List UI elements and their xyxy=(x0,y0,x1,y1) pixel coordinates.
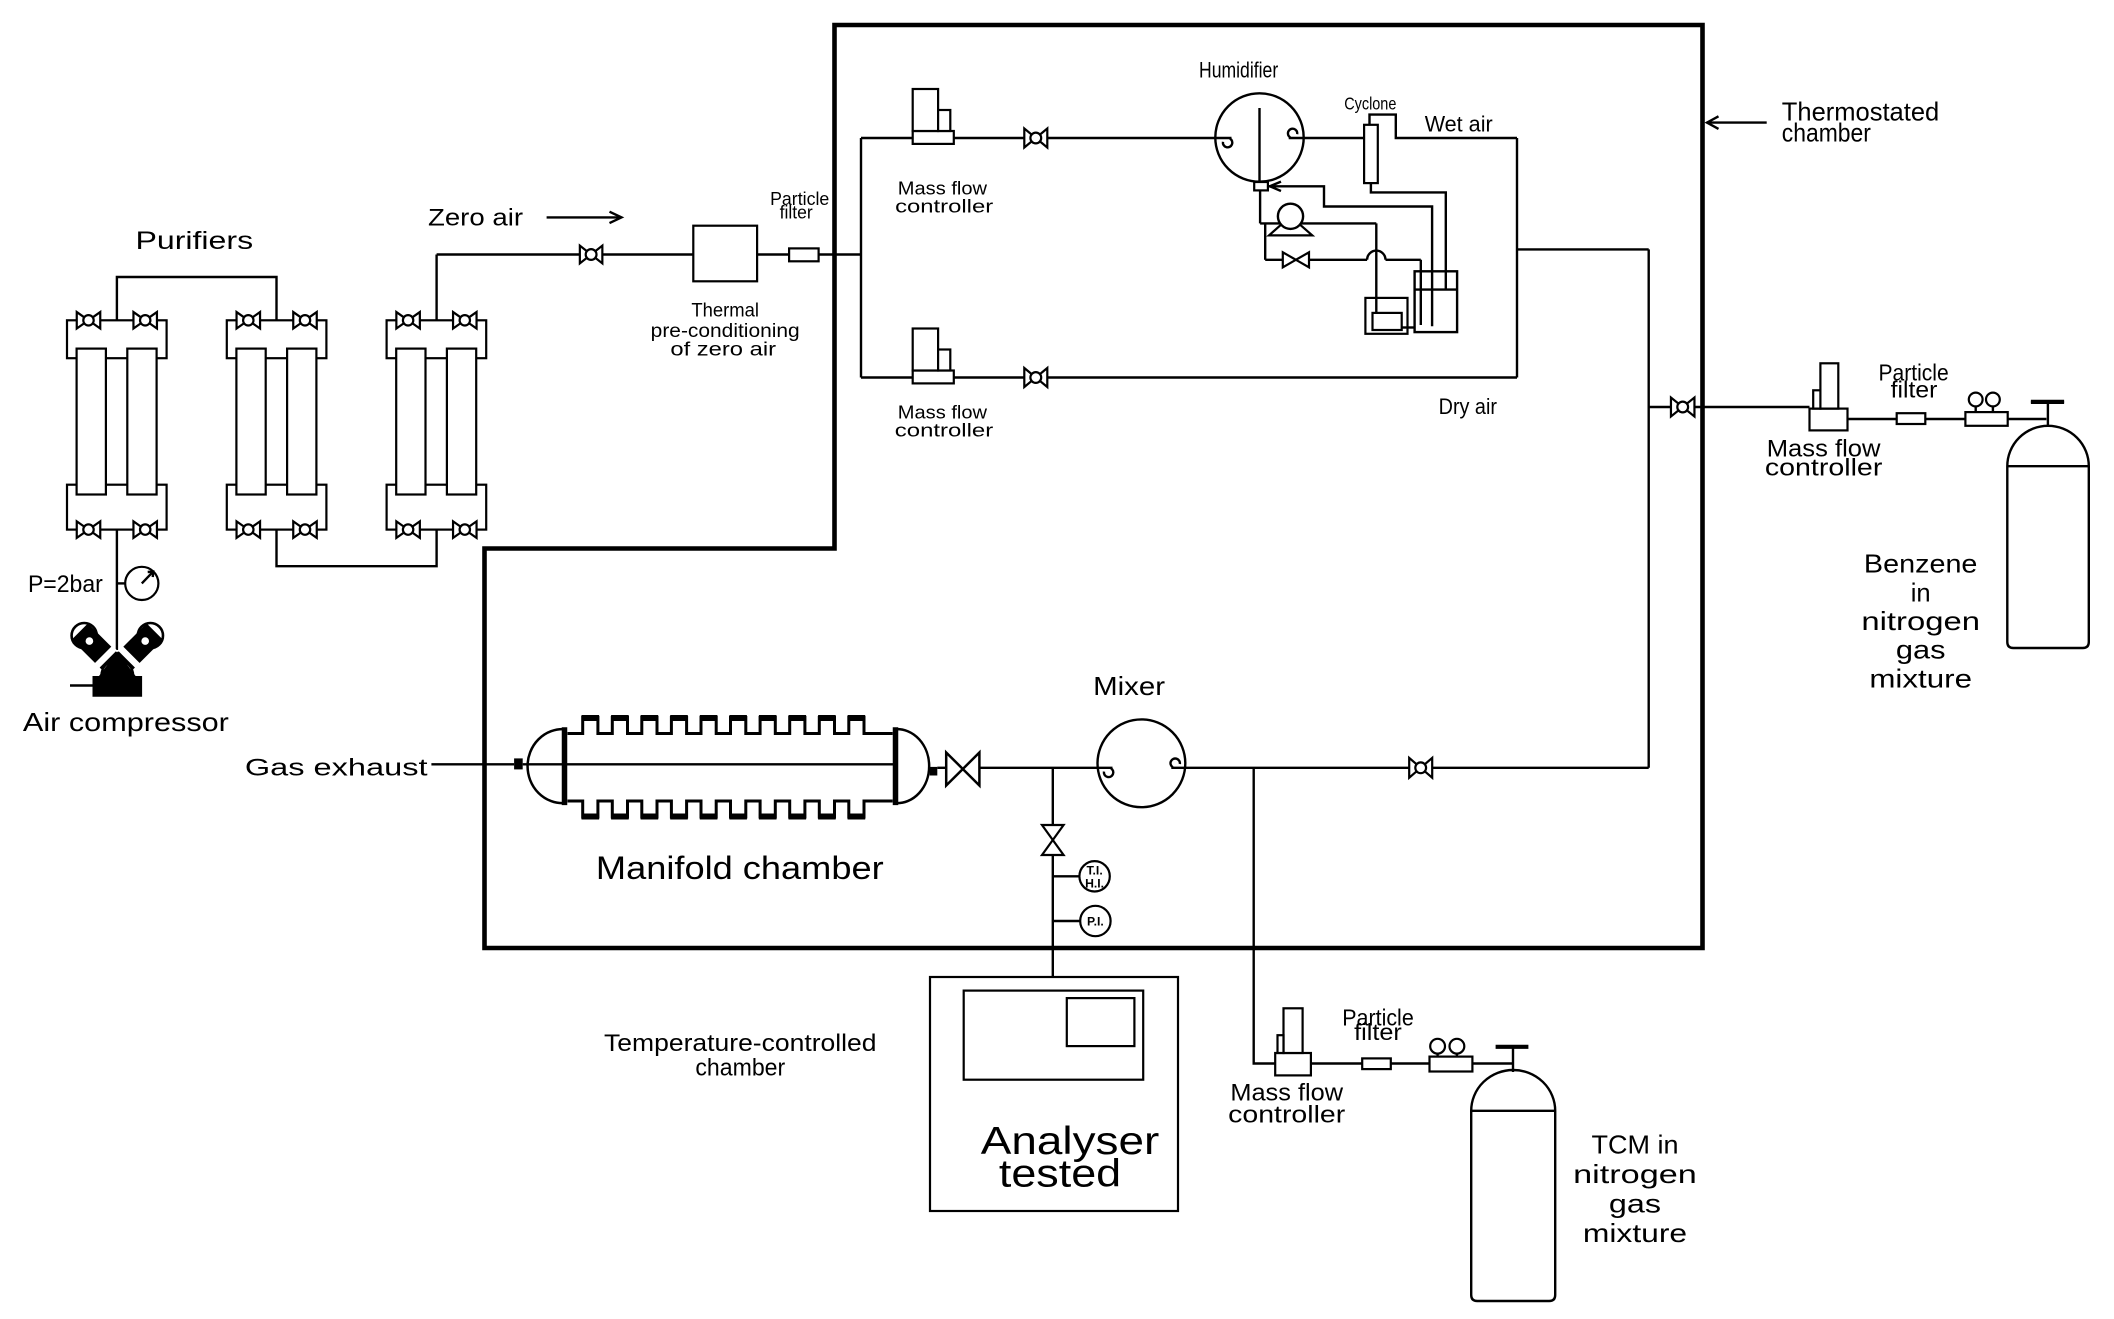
svg-text:Gas exhaust: Gas exhaust xyxy=(245,755,428,782)
svg-text:Benzene: Benzene xyxy=(1864,549,1978,579)
svg-text:nitrogen: nitrogen xyxy=(1861,606,1980,636)
svg-text:Wet air: Wet air xyxy=(1425,112,1493,137)
svg-text:mixture: mixture xyxy=(1869,663,1972,693)
svg-text:Air compressor: Air compressor xyxy=(23,707,229,737)
svg-text:Thermal: Thermal xyxy=(691,301,759,322)
svg-text:P=2bar: P=2bar xyxy=(28,571,103,598)
svg-text:P.I.: P.I. xyxy=(1087,915,1104,929)
svg-text:Dry air: Dry air xyxy=(1439,394,1497,419)
svg-text:mixture: mixture xyxy=(1583,1218,1687,1248)
svg-text:filter: filter xyxy=(1891,377,1938,403)
svg-text:controller: controller xyxy=(895,421,993,441)
svg-text:Humidifier: Humidifier xyxy=(1199,58,1278,83)
svg-text:Cyclone: Cyclone xyxy=(1344,93,1396,113)
svg-text:filter: filter xyxy=(780,203,813,223)
svg-text:controller: controller xyxy=(1765,454,1883,481)
svg-text:in: in xyxy=(1911,577,1931,607)
svg-text:Mixer: Mixer xyxy=(1093,671,1165,701)
svg-text:chamber: chamber xyxy=(1782,118,1871,148)
svg-text:TCM in: TCM in xyxy=(1592,1130,1679,1160)
svg-text:controller: controller xyxy=(1228,1102,1345,1129)
svg-text:Mass flow: Mass flow xyxy=(898,178,988,198)
svg-text:of zero air: of zero air xyxy=(670,340,777,361)
svg-text:filter: filter xyxy=(1354,1019,1402,1045)
svg-text:pre-conditioning: pre-conditioning xyxy=(651,321,800,342)
svg-text:Temperature-controlled: Temperature-controlled xyxy=(604,1030,877,1057)
svg-text:Mass flow: Mass flow xyxy=(898,402,988,422)
svg-text:H.I.: H.I. xyxy=(1085,876,1104,890)
svg-text:Purifiers: Purifiers xyxy=(136,227,254,255)
svg-text:Zero air: Zero air xyxy=(428,205,523,232)
svg-text:tested: tested xyxy=(999,1152,1121,1195)
svg-text:Manifold chamber: Manifold chamber xyxy=(596,850,884,886)
svg-text:gas: gas xyxy=(1609,1189,1661,1219)
svg-text:gas: gas xyxy=(1896,635,1946,665)
svg-text:chamber: chamber xyxy=(695,1055,785,1082)
svg-text:controller: controller xyxy=(895,196,993,216)
svg-text:nitrogen: nitrogen xyxy=(1573,1159,1697,1189)
